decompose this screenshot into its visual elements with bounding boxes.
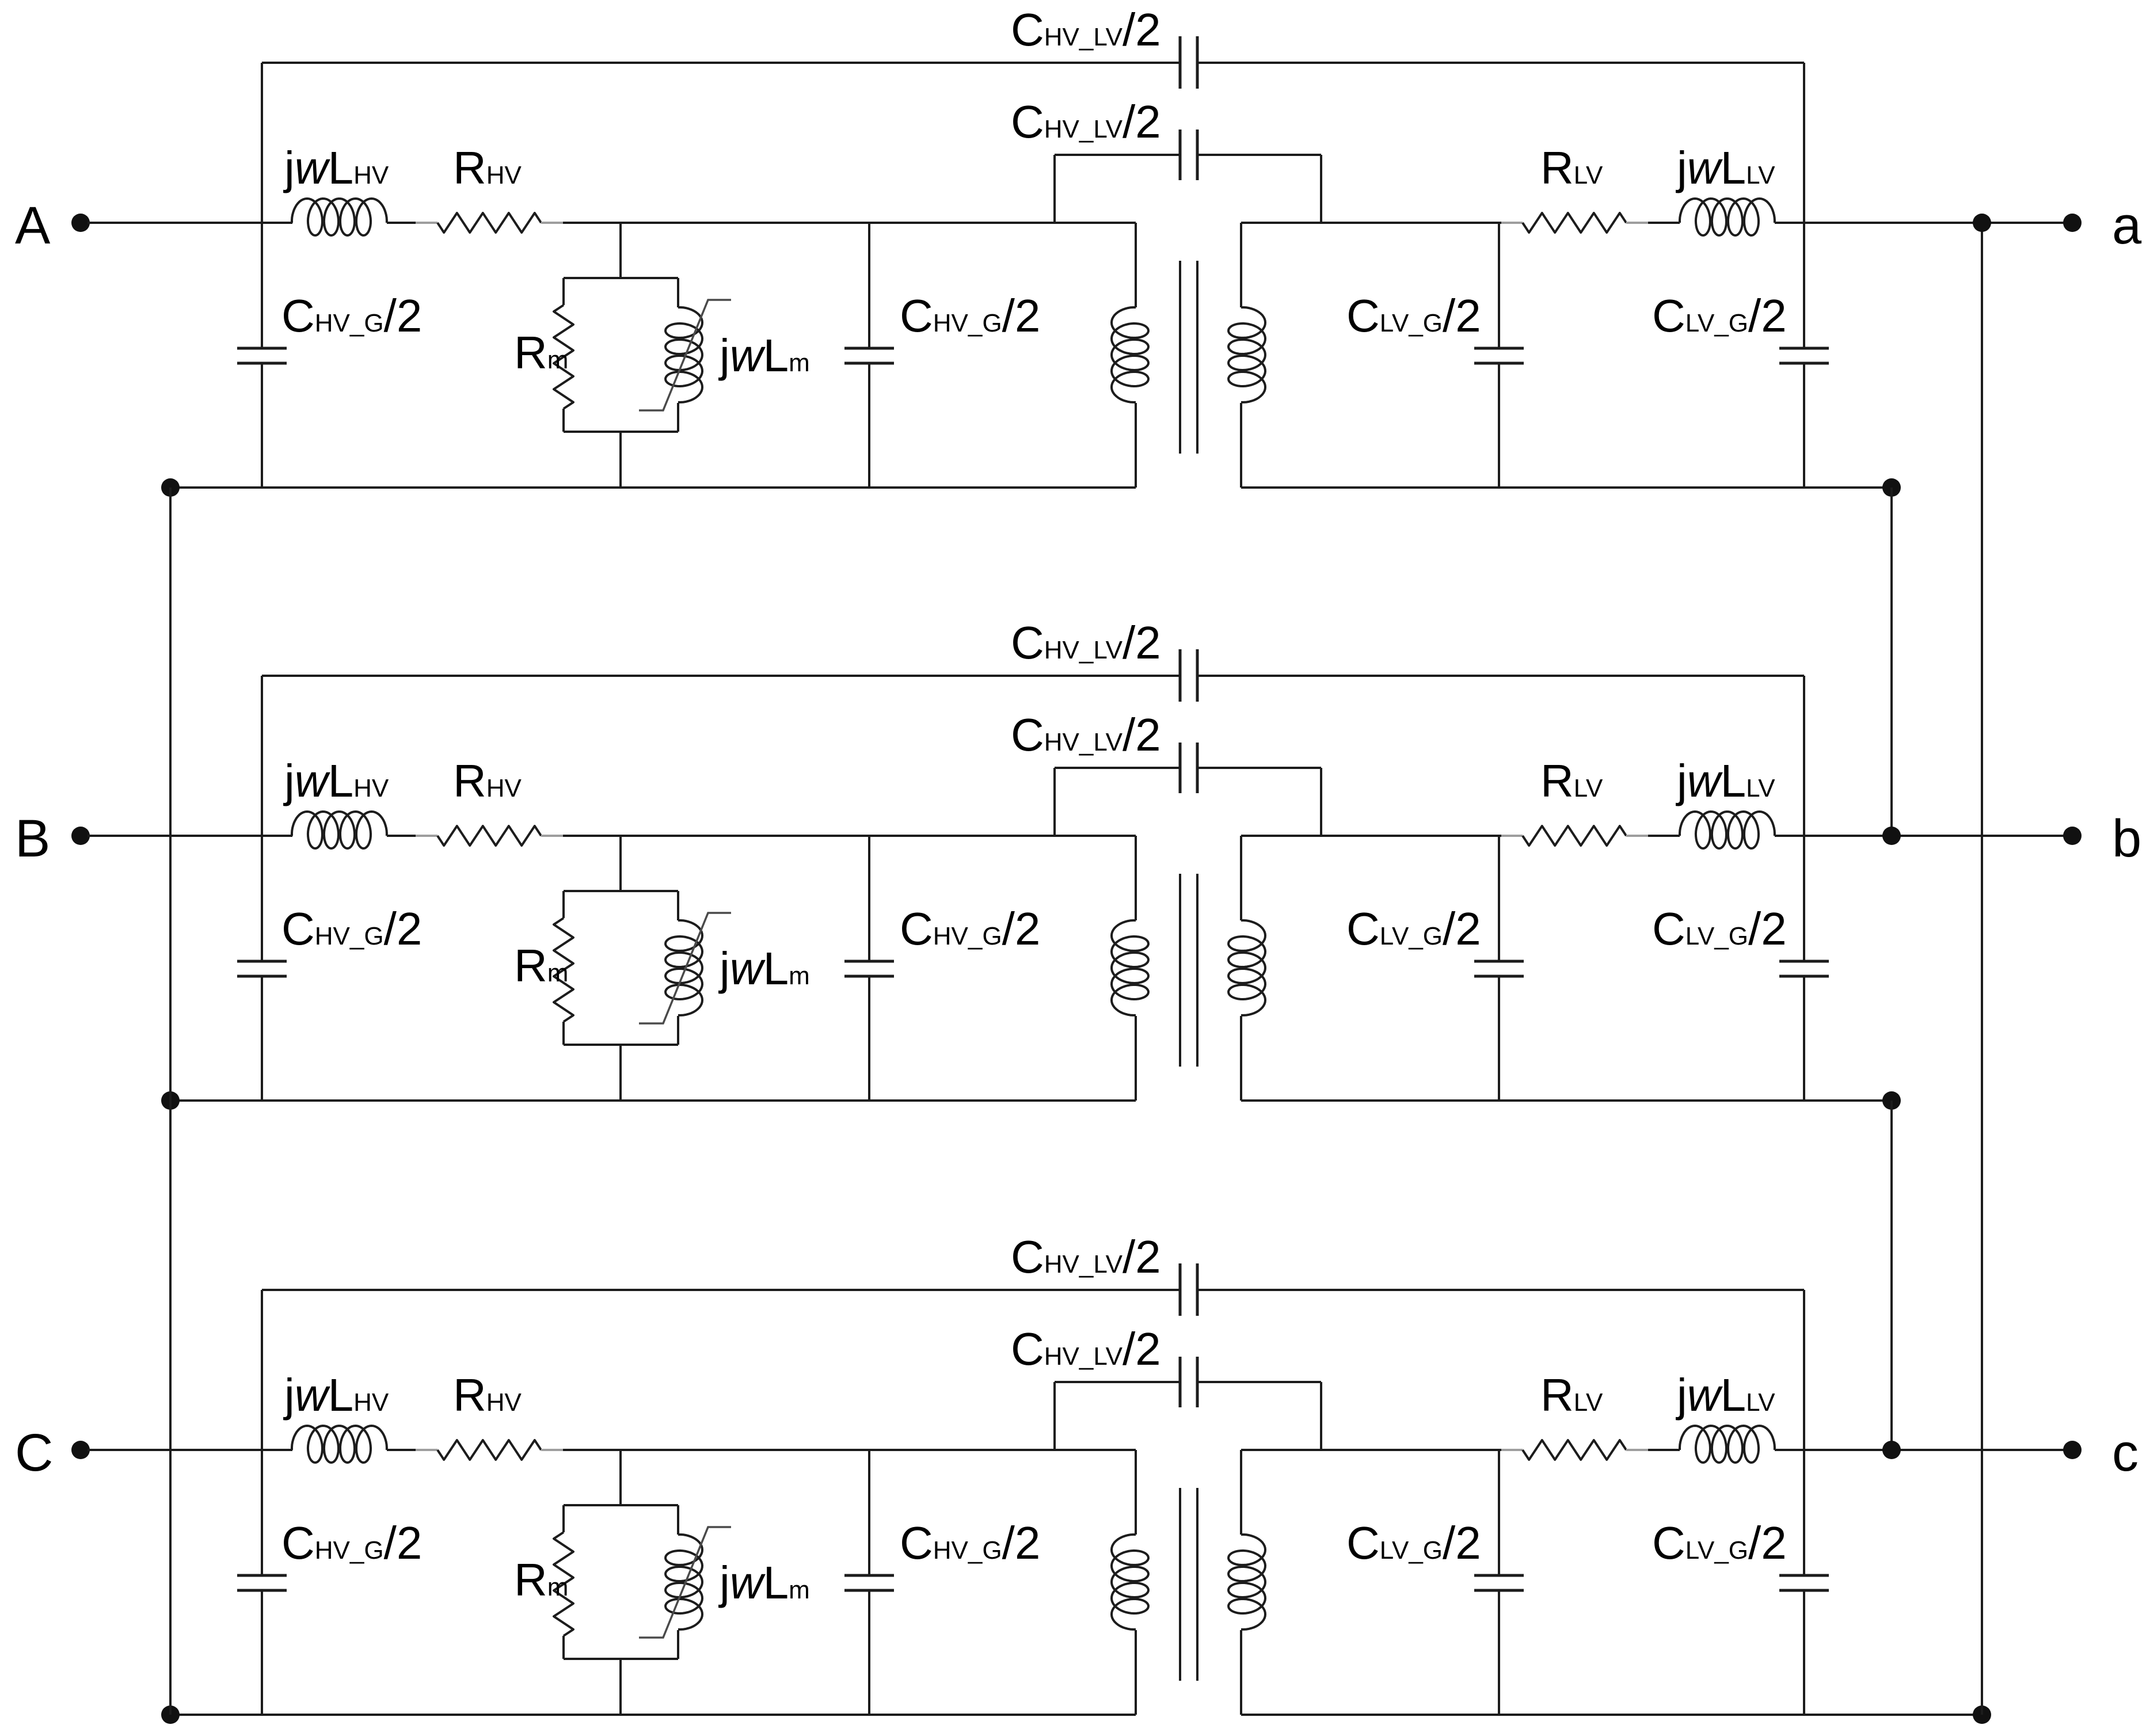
wire: jwL_HV to R_HV phase B — [387, 835, 437, 837]
transformer primary winding phase A — [1112, 223, 1148, 488]
node: phase A bottom-left junction — [161, 478, 180, 497]
terminal A (phase A HV input) — [15, 196, 90, 255]
capacitor C_HV_G/2 (left) phase B — [237, 961, 287, 976]
wire: jwL_LV to terminal c phase C — [1775, 1449, 2072, 1451]
svg-text:c: c — [2112, 1423, 2139, 1482]
svg-text:A: A — [15, 196, 51, 255]
wire: C_HV_G/2 (mid) stem phase A — [868, 223, 870, 488]
wire: B terminal to jwL_HV (phase B) — [87, 835, 292, 837]
transformer core phase C — [1180, 1488, 1197, 1681]
resistor R_LV phase B — [1523, 826, 1626, 846]
svg-text:a: a — [2112, 196, 2142, 255]
transformer core phase B — [1180, 874, 1197, 1067]
capacitor C_LV_G/2 (left) stem phase B — [1498, 836, 1500, 1101]
wire: phase B bottom rail to phase C wire — [1890, 1101, 1893, 1450]
transformer core phase A — [1180, 261, 1197, 454]
inductor jwL_HV phase A — [292, 199, 387, 235]
capacitor C_LV_G/2 (right) phase C — [1779, 1575, 1829, 1590]
wire: R_LV to jwL_LV phase C — [1626, 1449, 1680, 1451]
node: HV box left edge (x=455) phase A — [261, 63, 263, 488]
node: phase A bottom-right junction — [1882, 478, 1901, 497]
wire: R_HV to transformer primary phase C — [541, 1449, 1136, 1451]
capacitor C_HV_G/2 (mid) phase A — [844, 348, 894, 363]
inductor jwL_LV phase C — [1680, 1426, 1775, 1463]
transformer primary winding phase B — [1112, 836, 1148, 1101]
svg-text:C: C — [15, 1423, 53, 1482]
node: junction of a-column on phase A wire — [1973, 214, 1991, 232]
wire: inner coupling rail phase A — [1055, 155, 1321, 223]
nonlinear core arrow through Lm phase C — [639, 1527, 731, 1638]
resistor R_HV phase C — [437, 1440, 541, 1460]
wire: secondary to R_LV phase C — [1241, 1449, 1523, 1451]
transformer primary winding phase C — [1112, 1450, 1148, 1715]
svg-text:b: b — [2112, 809, 2141, 868]
wire: R_HV to transformer primary phase B — [541, 835, 1136, 837]
capacitor C_LV_G/2 (left) phase A — [1474, 348, 1524, 363]
resistor Rm (magnetizing) phase A — [554, 305, 573, 409]
transformer secondary winding phase C — [1228, 1450, 1265, 1715]
capacitor C_HV_G/2 (mid) phase C — [844, 1575, 894, 1590]
wire: right column from node a to phase C bottom rail — [1981, 223, 1983, 1715]
wire: top rail (HV-LV coupling) phase C — [262, 1289, 1804, 1291]
capacitor C_HV_LV/2 (inner) phase C — [1180, 1357, 1197, 1407]
capacitor C_HV_LV/2 (outer) phase C — [1180, 1263, 1197, 1316]
capacitor C_LV_G/2 (left) phase B — [1474, 961, 1524, 976]
node: Rm-Lm box frame phase B — [564, 891, 678, 1045]
terminal c (phase C LV output) — [2063, 1423, 2139, 1482]
wire: jwL_HV to R_HV phase C — [387, 1449, 437, 1451]
capacitor C_HV_G/2 (left) phase C — [237, 1575, 287, 1590]
terminal B (phase B HV input) — [15, 809, 90, 868]
wire: jwL_HV to R_HV phase A — [387, 222, 437, 224]
capacitor C_LV_G/2 (right) phase A — [1779, 348, 1829, 363]
capacitor C_HV_LV/2 (outer) phase A — [1180, 36, 1197, 89]
wire: HV bottom rail phase C — [170, 1714, 1136, 1716]
inductor jwLm (magnetizing, nonlinear) phase C — [665, 1535, 702, 1630]
inductor jwL_LV phase B — [1680, 812, 1775, 848]
node: LV box right edge (x=3134) phase A — [1803, 63, 1805, 488]
wire: phase A bottom rail to phase B wire — [1890, 488, 1893, 836]
capacitor C_HV_G/2 (mid) phase B — [844, 961, 894, 976]
wire: LV bottom rail phase C — [1241, 1714, 1982, 1716]
capacitor C_LV_G/2 (left) stem phase C — [1498, 1450, 1500, 1715]
wire: R_LV to jwL_LV phase A — [1626, 222, 1680, 224]
node: HV box left edge (x=455) phase B — [261, 676, 263, 1101]
capacitor C_HV_LV/2 (inner) phase B — [1180, 743, 1197, 793]
wire: C terminal to jwL_HV (phase C) — [87, 1449, 292, 1451]
wire: jwL_LV to terminal a phase A — [1775, 222, 2072, 224]
wire: C_HV_G/2 (mid) stem phase B — [868, 836, 870, 1101]
node: junction on phase B wire (x=3286) — [1882, 827, 1901, 845]
wire: top rail (HV-LV coupling) phase B — [262, 675, 1804, 677]
inductor jwL_HV phase C — [292, 1426, 387, 1463]
node: LV box right edge (x=3134) phase B — [1803, 676, 1805, 1101]
terminal a (phase A LV output) — [2063, 196, 2142, 255]
terminal b (phase B LV output) — [2063, 809, 2141, 868]
capacitor C_LV_G/2 (left) stem phase A — [1498, 223, 1500, 488]
wire: inner coupling rail phase B — [1055, 768, 1321, 836]
terminal C (phase C HV input) — [15, 1423, 90, 1482]
node: HV box left edge (x=455) phase C — [261, 1290, 263, 1715]
inductor jwL_HV phase B — [292, 812, 387, 848]
nonlinear core arrow through Lm phase B — [639, 913, 731, 1023]
wire: secondary to R_LV phase A — [1241, 222, 1523, 224]
wire: HV bottom rail phase A — [170, 486, 1136, 489]
node: phase B bottom-left junction — [161, 1091, 180, 1110]
capacitor C_LV_G/2 (right) phase B — [1779, 961, 1829, 976]
node: LV box right edge (x=3134) phase C — [1803, 1290, 1805, 1715]
wire: R_LV to jwL_LV phase B — [1626, 835, 1680, 837]
resistor R_HV phase B — [437, 826, 541, 846]
wire: C_HV_G/2 (mid) stem phase C — [868, 1450, 870, 1715]
capacitor C_LV_G/2 (left) phase C — [1474, 1575, 1524, 1590]
node: phase C bottom-right junction — [1973, 1705, 1991, 1724]
node: Rm-Lm box frame phase A — [564, 278, 678, 432]
capacitor C_HV_LV/2 (outer) phase B — [1180, 649, 1197, 702]
transformer secondary winding phase A — [1228, 223, 1265, 488]
nonlinear core arrow through Lm phase A — [639, 300, 731, 410]
node: phase C bottom-left junction — [161, 1705, 180, 1724]
resistor R_HV phase A — [437, 213, 541, 233]
resistor Rm (magnetizing) phase C — [554, 1532, 573, 1636]
wire: secondary to R_LV phase B — [1241, 835, 1523, 837]
node: junction on phase C wire (x=3286) — [1882, 1441, 1901, 1459]
inductor jwL_LV phase A — [1680, 199, 1775, 235]
wire: inner coupling rail phase C — [1055, 1382, 1321, 1450]
wire: HV bottom rail phase B — [170, 1099, 1136, 1102]
node: Rm-Lm box frame phase C — [564, 1505, 678, 1659]
node: phase B bottom-right junction — [1882, 1091, 1901, 1110]
wire: junction to Rm/Lm box phase C — [619, 1450, 622, 1715]
wire: jwL_LV to terminal b phase B — [1775, 835, 2072, 837]
svg-text:B: B — [15, 809, 50, 868]
resistor R_LV phase C — [1523, 1440, 1626, 1460]
wire: LV bottom rail phase A — [1241, 486, 1892, 489]
capacitor C_HV_LV/2 (inner) phase A — [1180, 130, 1197, 180]
wire: junction to Rm/Lm box phase B — [619, 836, 622, 1101]
wire: A terminal to jwL_HV (phase A) — [87, 222, 292, 224]
wire: R_HV to transformer primary phase A — [541, 222, 1136, 224]
wire: junction to Rm/Lm box phase A — [619, 223, 622, 488]
inductor jwLm (magnetizing, nonlinear) phase A — [665, 307, 702, 402]
transformer secondary winding phase B — [1228, 836, 1265, 1101]
inductor jwLm (magnetizing, nonlinear) phase B — [665, 920, 702, 1015]
resistor R_LV phase A — [1523, 213, 1626, 233]
wire: top rail (HV-LV coupling) phase A — [262, 62, 1804, 64]
wire: LV bottom rail phase B — [1241, 1099, 1892, 1102]
capacitor C_HV_G/2 (left) phase A — [237, 348, 287, 363]
wire: left neutral column joining bottom rails — [169, 488, 172, 1715]
resistor Rm (magnetizing) phase B — [554, 918, 573, 1022]
